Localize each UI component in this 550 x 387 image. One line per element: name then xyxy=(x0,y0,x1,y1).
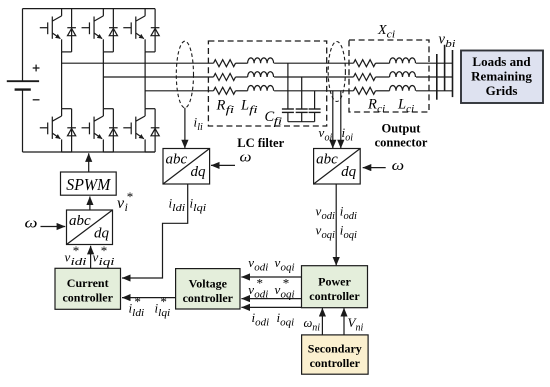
svg-text:*: * xyxy=(257,275,264,290)
svg-text:ci: ci xyxy=(377,104,385,115)
svg-text:ω: ω xyxy=(25,215,38,231)
svg-text:controller: controller xyxy=(62,291,113,305)
svg-text:abc: abc xyxy=(166,151,188,167)
svg-text:Remaining: Remaining xyxy=(471,69,532,84)
svg-text:odi: odi xyxy=(322,211,336,222)
svg-text:LC filter: LC filter xyxy=(237,136,284,150)
svg-text:lqi: lqi xyxy=(158,308,170,319)
svg-text:ω: ω xyxy=(392,158,405,174)
svg-text:oi: oi xyxy=(325,132,333,143)
svg-text:ldi: ldi xyxy=(172,203,185,214)
svg-text:controller: controller xyxy=(309,289,360,303)
svg-text:dq: dq xyxy=(191,164,207,180)
svg-text:ldi: ldi xyxy=(132,308,144,319)
svg-text:lqi: lqi xyxy=(193,203,206,214)
svg-text:connector: connector xyxy=(375,136,428,150)
svg-text:L: L xyxy=(397,97,406,113)
svg-text:odi: odi xyxy=(255,317,269,328)
svg-text:Grids: Grids xyxy=(486,83,518,98)
svg-text:Output: Output xyxy=(382,122,422,136)
svg-text:odi: odi xyxy=(254,262,268,273)
svg-text:SPWM: SPWM xyxy=(66,175,111,194)
svg-text:controller: controller xyxy=(183,291,234,305)
svg-text:Power: Power xyxy=(318,275,351,289)
svg-text:oi: oi xyxy=(345,132,353,143)
svg-text:odi: odi xyxy=(344,211,358,222)
svg-text:iqi: iqi xyxy=(99,257,115,268)
svg-text:fi: fi xyxy=(249,105,258,116)
svg-text:abc: abc xyxy=(316,151,338,167)
svg-text:oqi: oqi xyxy=(344,230,358,241)
svg-text:oqi: oqi xyxy=(281,289,295,300)
svg-text:li: li xyxy=(197,122,203,133)
svg-text:ni: ni xyxy=(356,322,364,333)
svg-text:*: * xyxy=(134,294,141,309)
svg-text:*: * xyxy=(73,243,80,258)
svg-text:fi: fi xyxy=(226,105,235,116)
svg-text:Voltage: Voltage xyxy=(189,276,228,290)
svg-text:dq: dq xyxy=(94,226,110,242)
svg-text:odi: odi xyxy=(254,289,268,300)
svg-text:oqi: oqi xyxy=(322,230,336,241)
svg-text:Current: Current xyxy=(67,276,109,290)
svg-text:ω: ω xyxy=(240,150,252,166)
svg-text:dq: dq xyxy=(341,164,357,180)
svg-text:oqi: oqi xyxy=(281,262,295,273)
svg-text:Loads and: Loads and xyxy=(472,54,531,69)
svg-text:L: L xyxy=(240,98,249,114)
svg-text:bi: bi xyxy=(445,39,455,50)
svg-text:abc: abc xyxy=(69,213,91,229)
svg-text:*: * xyxy=(127,189,134,204)
svg-text:ni: ni xyxy=(312,322,320,333)
svg-text:*: * xyxy=(101,243,108,258)
svg-text:ω: ω xyxy=(304,316,313,330)
svg-text:R: R xyxy=(216,98,226,114)
svg-text:*: * xyxy=(160,294,167,309)
svg-text:ci: ci xyxy=(406,104,414,115)
svg-text:ci: ci xyxy=(387,29,396,40)
svg-text:R: R xyxy=(367,97,377,113)
svg-text:idi: idi xyxy=(71,257,87,268)
svg-text:X: X xyxy=(377,23,387,38)
svg-text:fi: fi xyxy=(274,116,283,127)
svg-text:*: * xyxy=(283,275,290,290)
svg-text:oqi: oqi xyxy=(280,317,294,328)
svg-text:controller: controller xyxy=(310,356,361,370)
svg-text:Secondary: Secondary xyxy=(308,341,362,355)
